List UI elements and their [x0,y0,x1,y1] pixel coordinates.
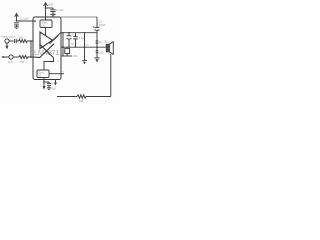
bias control block [40,20,52,28]
svg-text:100µF: 100µF [99,24,107,27]
gain block x2 [37,70,49,78]
resistor R1 [19,39,34,42]
svg-text:+: + [62,71,64,74]
capacitor C1 (input coupling) [14,39,16,43]
svg-text:Rc: Rc [99,41,103,44]
wire (bootstrap rail) [61,16,97,18]
svg-text:Ctrl: Ctrl [42,24,46,27]
IC outline U1 [33,17,61,80]
wire [46,7,54,9]
wire [44,81,49,83]
ground (under C5) [50,14,55,15]
wire (VDD to bias) [45,17,47,20]
ground (under jack) [6,43,8,46]
ground (under C4) [47,88,51,89]
svg-text:0.1µF: 0.1µF [56,8,63,12]
wire [16,40,18,42]
svg-text:6: 6 [34,22,36,24]
svg-text:10k: 10k [79,99,84,103]
wire [9,40,14,42]
wire (x63 vertical) [62,33,64,56]
capacitor C4 [47,82,51,88]
pin stub below box [43,78,45,84]
input jack J1 [5,39,9,43]
capacitor C5 (supply bypass) [50,8,55,14]
svg-text:75k: 75k [20,60,25,64]
svg-text:VDD: VDD [48,2,54,6]
wire (second output diagonal) [50,35,59,43]
resistor R3 (box style) [65,48,70,53]
node (left supply junction) [16,20,18,22]
supply VDD arrow (top center) [44,3,48,17]
resistor R4 [77,95,87,98]
ground (under C8 leg) [94,57,99,59]
wire to VDD pin [17,20,37,22]
wire (bottom rail) [57,96,111,98]
svg-text:LM4871: LM4871 [34,48,59,57]
capacitor C8 (output electrolytic) [95,17,100,58]
wire (output rail) [61,32,97,34]
wire (node A to input node) [30,41,32,57]
supply VDD arrow (left) [15,14,19,21]
svg-text:1µF: 1µF [52,88,57,91]
svg-text:10µ: 10µ [71,44,75,46]
svg-text:Cc: Cc [86,44,90,47]
svg-text:8Ω: 8Ω [105,39,109,43]
wire (snubber branch) [84,33,86,61]
node (supply junction) [45,7,47,9]
svg-text:1µF: 1µF [8,60,13,64]
wire (bias to amp) [45,28,47,36]
svg-text:+: + [72,33,74,36]
wire (to speaker) [61,46,106,48]
svg-text:C2 1µF: C2 1µF [20,17,29,21]
svg-text:Audio Input: Audio Input [1,34,15,38]
svg-text:x2: x2 [39,74,42,77]
wire (cross-couple X 2) [40,44,54,58]
node [96,46,98,48]
ground arrow (under box) [43,83,45,86]
wire (speaker return) [110,54,112,97]
wire (output diagonal) [53,33,62,41]
pin stub 2 with ground arrow [55,80,57,83]
wire (cross-couple X) [33,44,54,58]
capacitor C7 [73,33,78,47]
capacitor C6 (polarized) [67,33,72,47]
jack J2 [9,55,13,59]
wire [13,56,19,58]
speaker [106,44,109,52]
resistor Rc ticks [96,51,99,53]
svg-text:-1: -1 [57,61,60,63]
resistor R2 [19,55,33,58]
svg-text:10Ω: 10Ω [99,52,104,55]
wire (lower stub) [61,55,72,57]
ground (under C2) [14,27,19,28]
tick marks (zobel) [96,41,99,43]
capacitor C2 (left bypass) [14,23,19,27]
wire (to gain block) [44,58,54,70]
node A [30,56,32,58]
wire (gain block out) [49,73,64,75]
ground (snubber) [82,60,87,62]
op-amp A1 [40,32,53,49]
wire [4,56,9,58]
feedback tap arrow (row2 left) [1,56,4,58]
svg-text:1.5k: 1.5k [73,54,79,58]
